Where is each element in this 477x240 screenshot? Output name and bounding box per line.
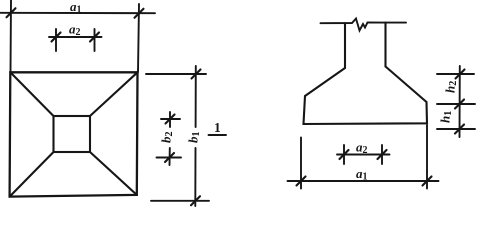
dimension line h (section, vertical) [455,66,465,137]
extension line right of a1 (section) [426,125,428,189]
extension line h middle [437,103,475,105]
column top edge with break line (section) [321,19,407,31]
svg-text:a1: a1 [70,0,82,16]
extension line left of a1 (section) [300,138,302,189]
column left edge (section) [344,23,346,68]
extension line top of b1 [146,73,206,75]
svg-text:a2: a2 [69,22,81,39]
footing left slope (section) [305,68,345,96]
extension line right of a2 [94,29,96,51]
dimension line b2 (plan, vertical) [165,112,175,165]
extension line right of a1 [138,4,139,72]
svg-text:b2: b2 [159,132,176,144]
extension line right of a2 (section) [381,145,383,164]
footing right slope (section) [386,67,427,103]
diagonal bottom-left [10,152,54,197]
extension line left of a2 [55,29,57,51]
dimension line a2 (plan) [49,33,102,42]
dimension line b1 (plan, vertical) [191,66,201,206]
svg-text:1: 1 [214,120,221,135]
extension line left of a1 [10,0,13,72]
extension line left of a2 (section) [343,145,345,164]
extension line h top [437,73,474,75]
svg-text:b1: b1 [186,132,203,144]
diagonal top-left [10,72,53,116]
inner square (column plan) [54,116,91,152]
footing base (section) [304,96,428,124]
diagonal bottom-right [90,152,137,195]
dimension line a1 (plan, top) [0,8,155,17]
svg-text:a2: a2 [356,140,368,157]
column right edge (section) [384,23,386,67]
extension line bottom of b1 [151,200,209,202]
svg-text:h2: h2 [443,81,460,93]
extension line h bottom [437,128,475,130]
svg-text:a1: a1 [356,166,368,183]
dimension line a1 (section, bottom) [288,177,439,186]
diagonal top-right [90,72,138,116]
extension line bottom of b2 [157,157,182,159]
section mark 1 [209,134,227,136]
svg-text:h1: h1 [438,111,455,123]
dimension line a2 (section, bottom) [337,150,390,159]
extension line top of b2 [161,118,180,120]
outer square (footing plan outline) [10,72,138,196]
